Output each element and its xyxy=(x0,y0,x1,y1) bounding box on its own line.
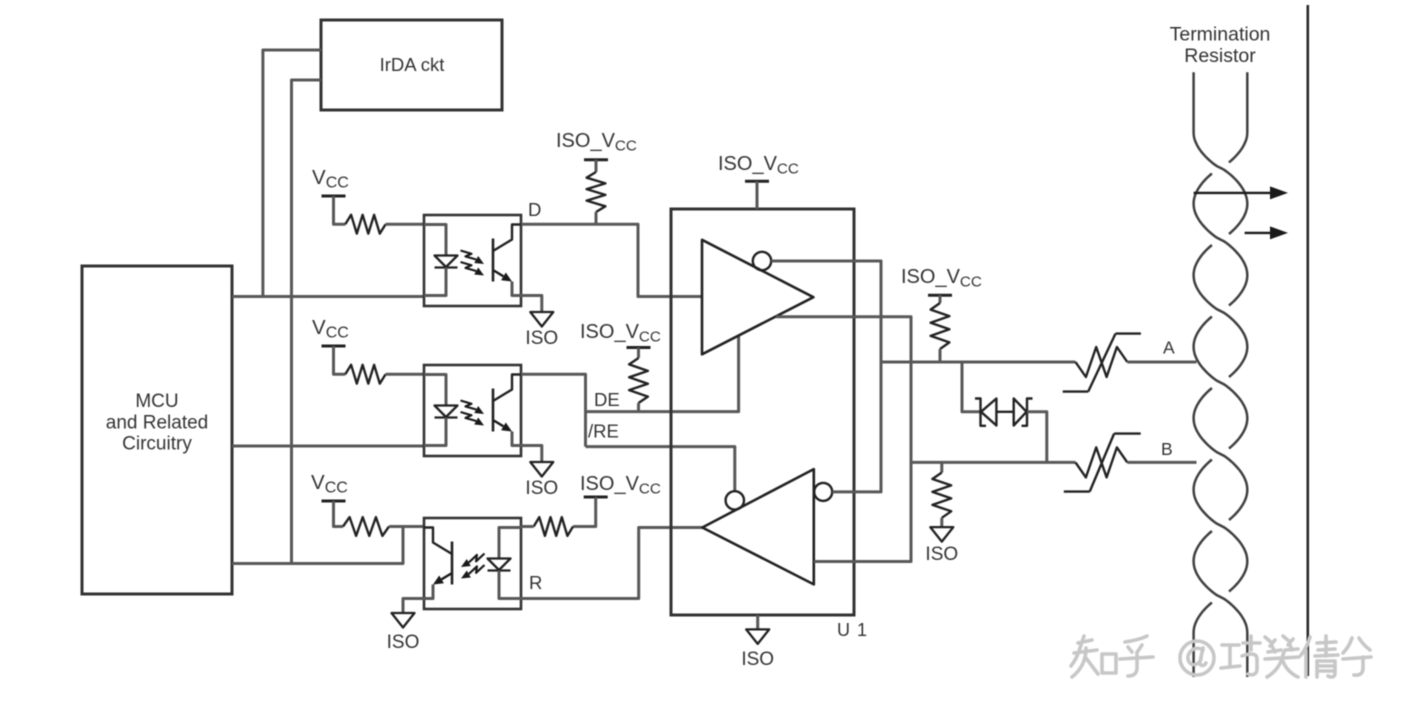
wire net DE: opto U3 output, splits to DE and /RE xyxy=(521,374,586,446)
wire A to twisted pair xyxy=(1127,361,1196,364)
svg-text:D: D xyxy=(528,199,541,220)
wire net D: opto U2 to driver input xyxy=(521,224,702,296)
wire R3 to opto U4, junction with MCU wire xyxy=(389,525,424,528)
IC U1 transceiver box xyxy=(671,209,868,640)
resistor R7 (A pull-up) xyxy=(931,303,950,349)
power VCC (middle) xyxy=(312,316,349,346)
resistor R8 (B pull-down) xyxy=(932,473,951,518)
svg-text:MCU: MCU xyxy=(135,391,178,412)
wire VCC1 stub xyxy=(334,196,346,224)
label node A xyxy=(1163,338,1175,358)
label Termination Resistor xyxy=(1170,24,1271,68)
wire U3 emitter to ground xyxy=(521,446,542,463)
wire MCU out 2 (to opto U3 LED) xyxy=(232,445,424,448)
varistor RV1 (transient suppressor, line A) xyxy=(1063,334,1141,392)
svg-text:DE: DE xyxy=(594,389,620,410)
wire B to twisted pair xyxy=(1127,461,1196,464)
arrow signal direction 1 xyxy=(1194,186,1288,199)
svg-text:R: R xyxy=(529,572,542,593)
svg-text:ISO: ISO xyxy=(387,632,420,653)
resistor R6 (U4 LED series) xyxy=(534,517,573,536)
bubble receiver enable xyxy=(726,491,744,509)
wire R5 to DE net xyxy=(637,403,640,412)
label R xyxy=(529,572,542,593)
block MCU and Related Circuitry xyxy=(82,266,232,594)
varistor RV2 (transient suppressor, line B) xyxy=(1064,434,1141,492)
diode D2 (zener, cathode right) xyxy=(1014,399,1033,426)
arrow signal direction 2 xyxy=(1245,226,1288,239)
wire U2 emitter to ground xyxy=(521,296,542,313)
label node B xyxy=(1161,439,1173,459)
wire IrDA to MCU net RXD xyxy=(292,80,322,564)
wire ISO_VCC2 stub to U1 xyxy=(756,181,759,209)
svg-text:and Related: and Related xyxy=(106,413,208,434)
wire A to diode pair xyxy=(962,362,980,412)
resistor R4 (D pull-up) xyxy=(587,172,606,212)
wire /RE to receiver enable xyxy=(586,447,735,491)
svg-text:A: A xyxy=(1163,338,1175,358)
wire DE to driver enable xyxy=(586,336,739,412)
wire driver out to receiver in (net B vertical) xyxy=(776,317,911,562)
power ISO_VCC (above D pullup) xyxy=(556,130,637,160)
watermark zhihu xyxy=(1071,636,1371,677)
wire R6 to opto U4 xyxy=(521,525,534,528)
wire D1 to D2 xyxy=(996,411,1013,413)
wire MCU out 1 (to opto U2 LED) xyxy=(232,295,424,298)
wire MCU out 3 (R signal from opto U4) xyxy=(232,527,403,564)
label /RE xyxy=(588,421,619,442)
svg-text:ISO: ISO xyxy=(525,328,558,349)
svg-text:ISO: ISO xyxy=(525,478,558,499)
resistor R3 xyxy=(343,517,389,536)
wire R1 to opto U2 xyxy=(386,223,424,226)
label D xyxy=(528,199,541,220)
wire VCC3 stub xyxy=(334,501,344,527)
optocoupler U2 (D channel) xyxy=(424,215,521,306)
optocoupler U4 (R channel, mirrored) xyxy=(424,518,521,609)
wire net A horizontal xyxy=(881,361,1076,364)
wire ISO_VCC3 stub xyxy=(637,348,640,359)
block IrDA ckt xyxy=(321,20,502,110)
twisted pair cable xyxy=(1194,72,1248,677)
resistor R1 xyxy=(345,215,385,234)
wire ISO_VCC1 stub xyxy=(595,160,598,172)
svg-text:ISO: ISO xyxy=(741,649,774,670)
label DE xyxy=(594,389,620,410)
resistor R2 xyxy=(345,365,385,384)
power ISO_VCC (U1 supply) xyxy=(718,153,799,181)
ground ISO (below U1) xyxy=(741,629,774,670)
svg-text:/RE: /RE xyxy=(588,421,619,442)
ground ISO (below D opto) xyxy=(525,312,558,349)
bubble receiver inverting input xyxy=(814,483,832,501)
wire net R: opto U4 LED to receiver output xyxy=(521,528,702,599)
ground ISO (B pull-down) xyxy=(925,527,958,565)
svg-text:Circuitry: Circuitry xyxy=(122,434,192,455)
wire U4 emitter to ground xyxy=(403,599,424,614)
svg-text:ISO: ISO xyxy=(925,544,958,565)
op-amp driver (U1 top) xyxy=(702,240,813,354)
power VCC (top) xyxy=(312,166,349,196)
svg-text:U 1: U 1 xyxy=(837,620,868,640)
wire net B horizontal xyxy=(911,461,1076,464)
power ISO_VCC (above DE pullup) xyxy=(580,321,661,348)
wire ISO_VCC4 stub xyxy=(573,497,596,527)
wire R8 to ground xyxy=(940,518,943,527)
power ISO_VCC (A pull-up) xyxy=(901,266,982,295)
power VCC (bottom) xyxy=(311,471,348,501)
wire ISO_VCC5 stub xyxy=(939,295,942,303)
bubble driver inverted output xyxy=(753,252,771,270)
wire IrDA to MCU net TXD xyxy=(263,50,321,297)
svg-text:IrDA ckt: IrDA ckt xyxy=(380,54,445,75)
op-amp receiver (U1 bottom) xyxy=(702,469,814,584)
ground ISO (below DE opto) xyxy=(525,462,558,499)
power ISO_VCC (opto U4 anode) xyxy=(580,473,661,498)
svg-text:Resistor: Resistor xyxy=(1184,45,1256,67)
wire U1 ground stub xyxy=(756,615,759,629)
wire VCC2 stub xyxy=(334,346,346,374)
optocoupler U3 (DE//RE channel) xyxy=(424,365,521,456)
wire B to R8 xyxy=(940,462,943,472)
diode D1 (zener, cathode left) xyxy=(975,399,996,426)
wire diode pair to B xyxy=(1027,412,1047,463)
svg-text:B: B xyxy=(1161,439,1173,459)
wire R2 to opto U3 xyxy=(386,373,424,376)
wire R7 to A xyxy=(939,349,942,362)
wire R4 to D net xyxy=(595,212,598,224)
wire bus line (right) xyxy=(1307,5,1310,676)
resistor R5 (DE pull-up) xyxy=(629,358,648,403)
ground ISO (below R opto) xyxy=(387,613,420,653)
svg-text:Termination: Termination xyxy=(1170,24,1271,46)
wire driver inverted out to receiver inverting in xyxy=(771,261,881,492)
